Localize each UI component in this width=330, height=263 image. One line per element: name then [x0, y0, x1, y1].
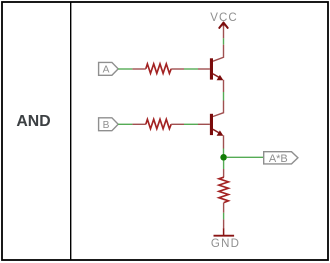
junction node dot [220, 154, 227, 161]
wire node to output flag (green) [227, 156, 264, 158]
wire to Q2 collector (red) [213, 101, 224, 117]
wire to Q1 base (green) [184, 68, 198, 70]
wire base lead Q1 (red) [198, 68, 210, 70]
wire net between Q1 and Q2 (green) [223, 92, 225, 101]
svg-text:GND: GND [211, 238, 240, 250]
wire VCC lead (red) [223, 26, 225, 39]
resistor R3 (pulldown) [219, 177, 229, 202]
wire GND lead (red) [223, 219, 225, 229]
svg-text:A*B: A*B [269, 153, 288, 165]
wire resistor lead right (red) [171, 123, 184, 125]
output flag A*B [264, 152, 298, 166]
wire Q1 emitter down (red) [223, 80, 225, 92]
svg-text:A: A [103, 65, 110, 76]
wire to Q2 base (green) [184, 123, 198, 125]
transistor Q2 (bottom NPN) [210, 114, 224, 136]
resistor R2 (input B) [146, 119, 171, 129]
wire resistor lead left (red) [132, 68, 145, 70]
wire node to pulldown resistor (green) [223, 160, 225, 169]
transistor Q1 (top NPN) [210, 58, 224, 80]
wire to output node (green) [223, 149, 225, 155]
wire Q2 emitter down (red) [223, 135, 225, 148]
input flag B [99, 118, 119, 131]
wire resistor lead top (red) [223, 169, 225, 177]
wire resistor lead bottom (red) [223, 203, 225, 213]
VCC power symbol arrow [219, 23, 227, 28]
wire VCC net (green) [223, 38, 225, 44]
wire resistor lead right (red) [171, 68, 184, 70]
wire resistor lead left (red) [132, 123, 145, 125]
resistor R1 (input A) [146, 64, 171, 74]
wire base lead Q2 (red) [198, 123, 210, 125]
wire A flag to resistor (green) [118, 68, 132, 70]
svg-text:B: B [103, 120, 110, 131]
ground symbol [214, 229, 235, 236]
wire to Q1 collector (red) [213, 45, 224, 62]
wire B flag to resistor (green) [118, 123, 132, 125]
svg-text:AND: AND [16, 113, 50, 130]
input flag A [99, 62, 119, 75]
wire to GND (green) [223, 213, 225, 220]
